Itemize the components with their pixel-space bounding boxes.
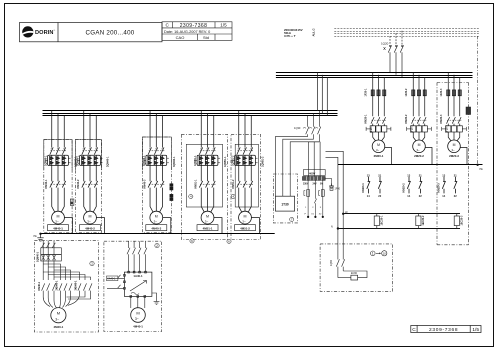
aux contact labels	[367, 173, 457, 198]
ground symbol left	[37, 234, 43, 241]
svg-text:400V: 400V	[309, 171, 315, 175]
svg-text:1A40-1: 1A40-1	[133, 274, 143, 278]
svg-text:3 Ph + T: 3 Ph + T	[284, 34, 296, 38]
svg-text:1F40: 1F40	[335, 188, 341, 191]
svg-text:4M40-1: 4M40-1	[53, 227, 63, 231]
heater EC60	[351, 275, 358, 280]
svg-text:CGAN 200...400: CGAN 200...400	[86, 29, 135, 36]
svg-text:KM20-1: KM20-1	[361, 183, 365, 193]
heater rails	[338, 214, 460, 229]
svg-text:1EC20-1: 1EC20-1	[381, 215, 384, 225]
svg-text:3~: 3~	[87, 220, 91, 224]
svg-text:1F20-1: 1F20-1	[365, 88, 368, 97]
svg-text:2309-7368: 2309-7368	[429, 327, 458, 333]
breaker 1Q60 inside option box	[336, 214, 367, 278]
svg-text:1F20-1: 1F20-1	[370, 124, 373, 133]
svg-text:1F20-2: 1F20-2	[411, 124, 414, 133]
svg-text:KM20-2: KM20-2	[401, 183, 405, 193]
heater EC20-1	[374, 214, 379, 229]
svg-text:3~: 3~	[55, 220, 59, 224]
svg-text:DORIN: DORIN	[35, 30, 54, 36]
svg-text:M: M	[377, 143, 380, 147]
svg-text:KM20-1: KM20-1	[365, 114, 368, 124]
svg-text:4M40-2: 4M40-2	[85, 227, 95, 231]
svg-text:M: M	[57, 311, 60, 316]
soft starter 1A40-1	[124, 272, 151, 296]
svg-text:3~: 3~	[376, 148, 380, 152]
svg-text:KM51-1: KM51-1	[195, 179, 198, 189]
bus interconnect wires	[317, 72, 327, 115]
svg-text:KA40-1: KA40-1	[107, 278, 116, 281]
svg-text:M: M	[244, 214, 247, 218]
branch A solid breaker frame	[44, 137, 259, 207]
junction dots heater rails	[342, 213, 344, 215]
logo DORIN	[22, 26, 55, 37]
svg-text:2M20-3: 2M20-3	[449, 154, 459, 158]
svg-text:1/5: 1/5	[220, 23, 227, 28]
incoming wires	[42, 241, 44, 248]
compressor branch 1 QM40-1	[46, 111, 73, 234]
svg-text:3QM40-1: 3QM40-1	[143, 155, 146, 166]
box2 left control wires	[107, 275, 124, 289]
box2 internals	[127, 241, 147, 272]
svg-text:3~: 3~	[205, 220, 209, 224]
control fuses	[304, 178, 333, 217]
svg-text:3~: 3~	[154, 220, 158, 224]
svg-text:PE: PE	[480, 168, 484, 171]
svg-text:1: 1	[91, 262, 93, 266]
svg-text:1F20-3: 1F20-3	[446, 124, 449, 133]
PE rail left	[41, 233, 275, 235]
branch C dashed box	[143, 137, 172, 233]
svg-text:3~: 3~	[135, 317, 139, 321]
svg-text:3~: 3~	[416, 148, 420, 152]
compressor branch 4 QM51-1	[195, 111, 222, 234]
svg-text:EC60: EC60	[351, 272, 358, 275]
fan branch 3 motor 2M20-3	[442, 72, 467, 193]
secondary contact	[314, 199, 316, 217]
breaker 1Q30	[303, 111, 321, 134]
converge to motor	[43, 291, 50, 307]
heater EC20-3	[454, 214, 459, 229]
svg-text:KM40-3: KM40-3	[143, 179, 146, 189]
svg-text:1Q60: 1Q60	[330, 259, 333, 266]
svg-text:1EC20-2: 1EC20-2	[422, 215, 425, 225]
svg-text:C: C	[412, 327, 416, 333]
svg-text:KM20-3: KM20-3	[440, 114, 443, 124]
options dashed box 1 to 10	[320, 244, 392, 291]
svg-text:1QM51-2: 1QM51-2	[262, 156, 265, 167]
terminal strip 400V	[304, 170, 326, 176]
svg-text:1F20-3: 1F20-3	[440, 88, 443, 97]
branch B dashed box	[75, 140, 101, 233]
svg-text:KM51-2: KM51-2	[232, 179, 235, 189]
branch C edge connectors	[170, 184, 173, 201]
svg-text:M: M	[57, 214, 60, 218]
svg-text:PE: PE	[34, 235, 38, 238]
transformer 1T30	[275, 196, 294, 211]
branch labels rotated	[45, 155, 265, 189]
box2 ground	[154, 302, 160, 305]
svg-text:3~: 3~	[55, 317, 59, 321]
transformer dashed box	[273, 174, 297, 223]
svg-text:2M20-2: 2M20-2	[414, 154, 424, 158]
top-right supply text	[284, 28, 316, 38]
breaker block	[41, 248, 62, 255]
connector on box3 edge	[466, 107, 471, 115]
fan labels	[365, 88, 449, 133]
svg-text:4M51-2: 4M51-2	[240, 227, 250, 231]
main switch 1Q20	[384, 31, 404, 77]
svg-text:2: 2	[156, 244, 158, 248]
circled markers D E	[189, 194, 193, 198]
branch D inner frame	[186, 144, 222, 207]
svg-text:KM40-1: KM40-1	[45, 179, 48, 189]
svg-text:M: M	[155, 214, 158, 218]
fan branch 1 motor 2M20-1	[366, 72, 391, 193]
svg-text:KM20-2: KM20-2	[405, 114, 408, 124]
box2 motor	[131, 308, 146, 323]
svg-text:2M20-1: 2M20-1	[374, 154, 384, 158]
branch D dashed box	[181, 134, 227, 239]
svg-text:1: 1	[372, 252, 374, 256]
bottom title box	[411, 325, 481, 332]
svg-text:4M40-3: 4M40-3	[151, 227, 161, 231]
left 3-phase bus	[43, 111, 338, 116]
contactor group 1	[42, 283, 45, 290]
ground small mid	[329, 184, 334, 189]
svg-text:1Q20: 1Q20	[381, 42, 389, 46]
svg-text:2309-7368: 2309-7368	[180, 23, 208, 29]
svg-text:3~: 3~	[451, 148, 455, 152]
svg-text:2QM40-1: 2QM40-1	[107, 156, 110, 167]
svg-text:ALL.G: ALL.G	[312, 28, 316, 36]
right 3-phase bus	[276, 73, 473, 78]
contactor group 3	[78, 283, 81, 290]
svg-text:2KM40-1: 2KM40-1	[55, 280, 58, 291]
svg-text:KM40-1: KM40-1	[38, 281, 41, 290]
distribution wires	[42, 261, 44, 280]
circled note 7	[290, 217, 294, 221]
PE dashed drop wire	[477, 36, 479, 165]
svg-text:CAO: CAO	[176, 35, 185, 40]
svg-text:KM40-2: KM40-2	[77, 179, 80, 189]
wire routing to transformer	[275, 134, 320, 196]
C table	[162, 22, 232, 41]
svg-text:1QM40-1: 1QM40-1	[45, 155, 48, 166]
heater EC20-2	[416, 214, 421, 229]
svg-text:1QM51-1: 1QM51-1	[224, 156, 227, 167]
branch E inner frame	[235, 144, 258, 207]
contactor group 2	[59, 283, 62, 290]
svg-text:3QM40-1: 3QM40-1	[173, 156, 176, 167]
svg-text:3~: 3~	[242, 220, 246, 224]
svg-text:4M40-1: 4M40-1	[133, 325, 143, 329]
svg-text:4M51-1: 4M51-1	[203, 227, 213, 231]
svg-text:N: N	[331, 226, 333, 229]
branch E dashed box	[231, 134, 261, 239]
svg-text:1T30: 1T30	[281, 203, 288, 207]
svg-text:1F20-2: 1F20-2	[405, 88, 408, 97]
svg-text:Date: 16-AUG-2007 REV. 0: Date: 16-AUG-2007 REV. 0	[164, 30, 210, 34]
svg-text:24V: 24V	[313, 182, 318, 185]
svg-text:1QM51-2: 1QM51-2	[232, 155, 235, 166]
svg-text:1Q30: 1Q30	[294, 126, 301, 130]
compressor branch 3 QM40-3	[144, 111, 171, 234]
24V feed wires	[326, 151, 344, 228]
terminal dots	[307, 216, 324, 218]
svg-text:M: M	[136, 311, 139, 316]
svg-text:M: M	[453, 143, 456, 147]
compressor branch 2 QM40-2	[78, 111, 105, 234]
svg-text:2QM40-1: 2QM40-1	[77, 155, 80, 166]
svg-text:M: M	[418, 143, 421, 147]
fan branch 3 dashed option box	[437, 83, 469, 245]
fan PE rail	[338, 164, 483, 166]
option box 1 star-delta	[34, 241, 98, 332]
svg-text:1/5: 1/5	[472, 327, 479, 333]
svg-text:10: 10	[383, 251, 386, 255]
box1 motor	[51, 308, 66, 323]
compressor branch 5 QM51-2	[233, 111, 260, 234]
svg-text:1EC20-3: 1EC20-3	[461, 215, 464, 225]
edge connector on A/B boundary	[70, 199, 74, 205]
box1 internals	[41, 241, 92, 308]
svg-text:4M40-1: 4M40-1	[53, 325, 63, 329]
option box 2 soft start	[104, 241, 162, 331]
title block	[20, 23, 163, 42]
svg-text:M: M	[206, 214, 209, 218]
supply dashed bus 4 lines	[334, 29, 480, 37]
svg-text:M: M	[89, 214, 92, 218]
svg-text:1QM51-1: 1QM51-1	[194, 155, 197, 166]
svg-text:3KM40-1: 3KM40-1	[74, 280, 77, 291]
svg-text:Std: Std	[203, 35, 209, 40]
fan branch 2 motor 2M20-2	[407, 72, 432, 193]
branch A dashed box	[44, 134, 261, 239]
box2 motor wires	[131, 293, 157, 308]
svg-text:1QM40-1: 1QM40-1	[36, 251, 39, 262]
motor texts	[57, 214, 247, 218]
svg-text:R: R	[71, 201, 73, 205]
